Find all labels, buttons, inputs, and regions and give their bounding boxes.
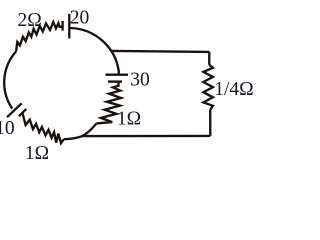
battery 30 [106,75,129,82]
wire [70,28,119,75]
wire [208,52,210,65]
wire [209,110,211,136]
wire [4,51,16,108]
svg-text:20: 20 [70,7,90,28]
svg-text:10: 10 [0,118,15,139]
battery 20 [63,14,70,39]
svg-text:1Ω: 1Ω [25,143,49,162]
resistor 1/4Ω [203,65,213,110]
circuit schematic [0,0,261,162]
svg-text:1/4Ω: 1/4Ω [214,79,253,100]
resistor 2Ω [16,22,63,51]
wire [82,135,211,138]
battery 10 [7,103,26,117]
wire [112,51,210,52]
resistor 1Ω (bottom) [22,113,63,143]
wire [64,123,97,139]
svg-text:2Ω: 2Ω [18,10,42,31]
svg-text:1Ω: 1Ω [117,109,141,130]
svg-text:30: 30 [130,70,150,91]
resistor 1Ω (diagonal) [96,82,121,124]
